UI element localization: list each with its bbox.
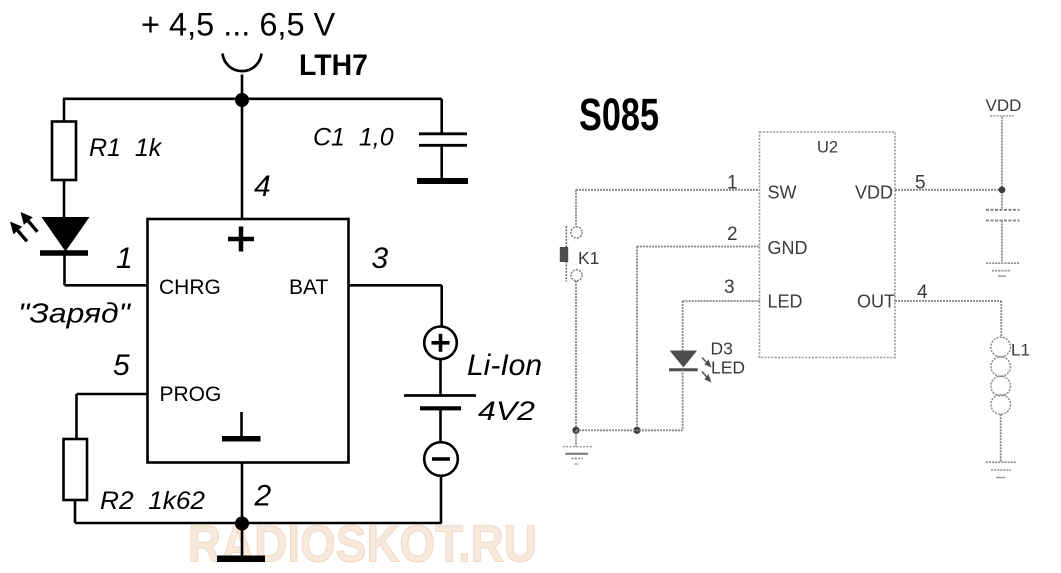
wire pin 2 vertical: [241, 463, 244, 524]
svg-text:LED: LED: [768, 292, 803, 312]
inductor L1: [991, 337, 1011, 414]
supply connector (open semicircle): [223, 54, 262, 99]
resistor R2: [64, 439, 88, 500]
wire BAT pin 3: [349, 285, 442, 327]
LED D3 light arrows: [702, 358, 712, 383]
svg-text:VDD: VDD: [855, 182, 893, 202]
svg-text:4V2: 4V2: [478, 396, 535, 426]
svg-text:PROG: PROG: [160, 383, 222, 406]
battery minus terminal: [424, 442, 458, 523]
wire top horizontal: [63, 98, 442, 101]
wire R2 bottom: [74, 500, 77, 523]
junction dot left (right ckt): [572, 427, 579, 434]
svg-text:2: 2: [254, 480, 272, 513]
wire PROG pin: [77, 394, 148, 439]
svg-text:S085: S085: [579, 89, 659, 140]
wire K1 to bottom: [575, 281, 577, 430]
battery plus terminal: [424, 327, 457, 360]
supply label VDD (right): [986, 96, 1022, 116]
svg-text:GND: GND: [768, 238, 808, 258]
svg-text:LTH7: LTH7: [299, 49, 368, 82]
ground C1: [417, 178, 468, 184]
svg-text:U2: U2: [817, 139, 838, 157]
wire pin5 VDD: [895, 189, 1002, 191]
IC internal ground mark: [222, 412, 261, 439]
ground symbol left: [563, 430, 592, 464]
wire pin 4 vertical: [241, 99, 244, 219]
junction dot bottom: [235, 517, 249, 531]
svg-text:1: 1: [116, 242, 133, 275]
svg-text:3: 3: [372, 242, 389, 275]
svg-text:VDD: VDD: [986, 96, 1022, 115]
button K1: [560, 226, 582, 282]
svg-text:"Заряд": "Заряд": [18, 298, 131, 329]
IC box U2: [760, 132, 896, 358]
wire left vertical top: [63, 99, 66, 122]
svg-text:L1: L1: [1011, 341, 1030, 360]
ground symbol capacitor: [986, 263, 1020, 276]
IC box U1 LTH7: [148, 219, 349, 463]
svg-text:3: 3: [724, 277, 735, 298]
svg-text:C1 1,0: C1 1,0: [313, 124, 394, 152]
resistor R1: [52, 122, 76, 181]
LED D3: [669, 351, 698, 431]
wire L1 to ground: [1000, 414, 1002, 461]
capacitor C1: [419, 99, 467, 179]
svg-text:CHRG: CHRG: [159, 276, 221, 299]
wire pin1 SW: [576, 190, 760, 227]
LED D1 light arrows: [10, 212, 37, 241]
svg-text:LED: LED: [711, 358, 745, 378]
svg-text:4: 4: [917, 282, 928, 303]
capacitor (right ckt): [986, 210, 1020, 263]
svg-text:BAT: BAT: [289, 276, 328, 299]
svg-text:OUT: OUT: [857, 292, 895, 312]
wire bottom horizontal: [75, 522, 442, 525]
svg-text:5: 5: [915, 173, 926, 194]
wire pin3 LED: [683, 301, 760, 351]
svg-text:+ 4,5 ... 6,5 V: + 4,5 ... 6,5 V: [141, 7, 336, 43]
junction dot mid (right ckt): [633, 427, 640, 434]
LED D1: [40, 217, 90, 253]
svg-text:Li-Ion: Li-Ion: [467, 349, 542, 382]
wire pin2 GND: [637, 247, 760, 431]
svg-text:2: 2: [727, 224, 738, 245]
junction dot top: [235, 93, 249, 107]
plus mark inside IC: [228, 227, 254, 252]
ground bottom: [217, 524, 265, 559]
wire pin4 OUT: [895, 301, 1001, 338]
battery cell: [404, 359, 476, 442]
svg-text:K1: K1: [578, 248, 599, 268]
junction dot right (right ckt): [999, 186, 1006, 193]
ground symbol L1: [986, 462, 1017, 477]
svg-text:R2 1k62: R2 1k62: [100, 487, 205, 515]
svg-text:5: 5: [113, 349, 130, 382]
wire bottom (right ckt): [576, 429, 683, 431]
svg-text:4: 4: [254, 170, 271, 203]
svg-text:SW: SW: [768, 182, 797, 202]
svg-text:R1 1k: R1 1k: [89, 134, 163, 162]
wire VDD vertical: [1001, 117, 1003, 210]
wire LED to CHRG pin: [65, 253, 148, 285]
wire R1 to LED: [63, 180, 66, 218]
svg-text:D3: D3: [711, 339, 733, 359]
